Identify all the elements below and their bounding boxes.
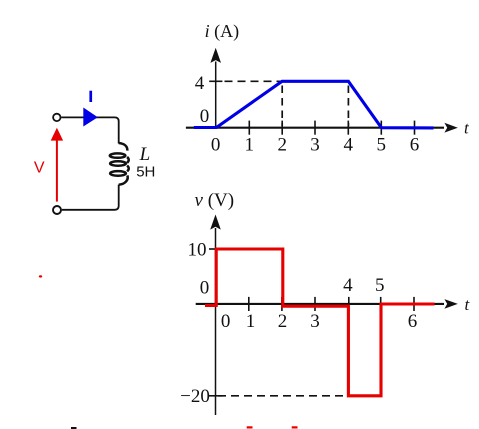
- y axis arrow: [210, 48, 221, 63]
- x axis arrow: [444, 299, 457, 309]
- tick t=6: [414, 121, 416, 135]
- voltage arrow V (red): [56, 139, 58, 202]
- tick i=4: [209, 80, 222, 82]
- terminal top-left: [53, 114, 60, 121]
- x axis arrow: [444, 123, 457, 133]
- svg-text:0: 0: [221, 311, 231, 332]
- tick t=4: [347, 121, 349, 135]
- tick t=3: [314, 297, 316, 311]
- x axis: [186, 127, 444, 129]
- tick t=5: [380, 297, 382, 311]
- tick t=2: [281, 297, 283, 311]
- svg-text:4: 4: [344, 135, 354, 156]
- svg-text:10: 10: [188, 239, 207, 260]
- svg-text:1: 1: [246, 311, 256, 332]
- svg-text:2: 2: [277, 135, 287, 156]
- svg-text:0: 0: [200, 278, 210, 299]
- wire top (to inductor): [61, 117, 118, 143]
- svg-text:0: 0: [200, 106, 210, 127]
- tick v=10: [209, 248, 222, 250]
- tick t=4: [348, 297, 350, 311]
- svg-text:3: 3: [310, 311, 320, 332]
- svg-text:5: 5: [377, 135, 387, 156]
- current waveform (blue): [194, 81, 434, 128]
- label I: [89, 91, 92, 102]
- y axis: [215, 228, 217, 415]
- current arrow (blue): [83, 108, 98, 127]
- svg-text:i (A): i (A): [205, 21, 240, 42]
- svg-text:L: L: [139, 144, 151, 165]
- y axis: [215, 62, 217, 129]
- svg-text:6: 6: [410, 135, 420, 156]
- svg-text:t: t: [464, 119, 470, 138]
- tick t=1: [248, 297, 250, 311]
- dashed vertical t=2: [281, 86, 283, 127]
- tick t=5: [380, 121, 382, 135]
- svg-text:1: 1: [245, 135, 255, 156]
- svg-text:v (V): v (V): [195, 190, 235, 211]
- dashed vertical t=4: [347, 86, 349, 127]
- dashed level i=4: [225, 80, 282, 82]
- svg-text:6: 6: [408, 311, 418, 332]
- svg-text:4: 4: [195, 73, 205, 94]
- cropped caption marks at bottom: [71, 427, 77, 429]
- svg-text:4: 4: [343, 275, 353, 296]
- svg-text:2: 2: [278, 311, 288, 332]
- tick v=-20: [209, 395, 222, 397]
- wire bottom (from inductor): [62, 185, 119, 210]
- svg-text:0: 0: [211, 135, 221, 156]
- inductor L coil: [110, 143, 129, 185]
- svg-text:−20: −20: [180, 386, 210, 407]
- svg-text:t: t: [465, 295, 471, 314]
- y axis arrow: [210, 215, 221, 230]
- terminal bottom-left: [53, 206, 61, 214]
- svg-text:3: 3: [310, 135, 320, 156]
- svg-text:5: 5: [375, 275, 385, 296]
- tick t=1: [248, 121, 250, 135]
- tick t=3: [314, 121, 316, 135]
- dashed level v=-20: [218, 395, 346, 397]
- svg-text:V: V: [34, 160, 45, 177]
- tick t=2: [281, 121, 283, 135]
- x axis: [196, 303, 444, 305]
- tick t=6: [413, 297, 415, 311]
- stray red dot: [39, 275, 42, 277]
- voltage waveform (red): [205, 249, 435, 396]
- svg-text:5H: 5H: [136, 164, 155, 181]
